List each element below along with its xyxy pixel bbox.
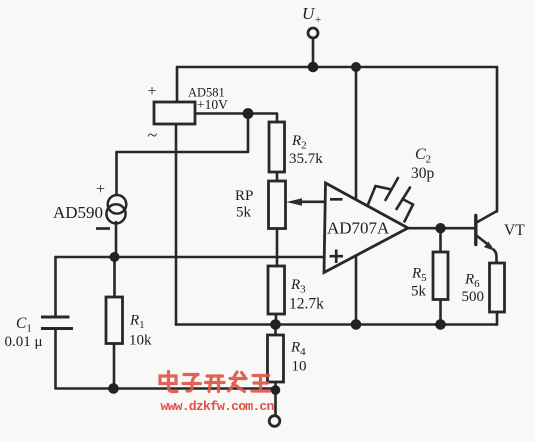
svg-text:10k: 10k	[129, 333, 152, 349]
svg-text:VT: VT	[504, 222, 525, 239]
svg-text:R4: R4	[290, 340, 306, 359]
svg-text:12.7k: 12.7k	[289, 296, 324, 313]
svg-text:500: 500	[462, 289, 485, 305]
svg-text:AD707A: AD707A	[327, 219, 390, 238]
svg-text:R1: R1	[129, 313, 145, 332]
svg-text:5k: 5k	[236, 205, 252, 221]
svg-text:10: 10	[292, 359, 307, 375]
svg-text:R5: R5	[411, 266, 427, 285]
svg-text:~: ~	[148, 125, 158, 145]
svg-text:+: +	[96, 181, 105, 198]
svg-text:30p: 30p	[411, 165, 435, 182]
svg-text:RP: RP	[235, 188, 253, 204]
svg-text:C2: C2	[415, 146, 431, 166]
svg-text:www.dzkfw.com.cn: www.dzkfw.com.cn	[161, 399, 275, 414]
svg-text:5k: 5k	[411, 284, 427, 300]
svg-text:35.7k: 35.7k	[289, 151, 323, 167]
svg-text:+: +	[148, 83, 157, 100]
svg-text:0.01 μ: 0.01 μ	[5, 334, 43, 350]
svg-text:R6: R6	[464, 272, 480, 291]
svg-text:+10V: +10V	[197, 97, 228, 112]
svg-text:AD590: AD590	[53, 203, 103, 222]
svg-text:R2: R2	[291, 133, 307, 152]
svg-text:U: U	[302, 4, 316, 23]
svg-text:R3: R3	[290, 277, 306, 296]
svg-text:+: +	[315, 14, 321, 26]
svg-text:C1: C1	[16, 315, 32, 335]
